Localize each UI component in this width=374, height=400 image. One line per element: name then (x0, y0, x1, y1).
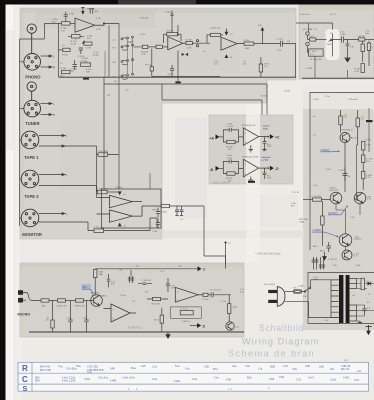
resistor R723 on monitor line (39, 218, 157, 232)
wire: stage2 vertical bus and ground (152, 25, 220, 76)
capacitor C901 shunt (66, 300, 73, 332)
svg-text:4.7K: 4.7K (355, 71, 360, 73)
svg-text:5/7008: 5/7008 (166, 31, 173, 33)
switch S1d contacts row4 (113, 73, 134, 83)
svg-text:C1a: C1a (152, 365, 157, 369)
svg-text:+C: +C (230, 34, 233, 36)
op-amp U705a (242, 125, 268, 145)
capacitor C730 parallel RC row1 (223, 124, 238, 137)
svg-text:51a: 51a (175, 364, 180, 368)
connector: TAPE 2 DIN socket (21, 170, 39, 188)
capacitor C714 (333, 32, 359, 43)
resistor R901 (41, 299, 58, 308)
svg-text:45 1M: 45 1M (261, 95, 267, 97)
wire: secondary taps (357, 279, 374, 322)
svg-text:641: 641 (82, 285, 87, 289)
resistor R709 output (186, 39, 210, 49)
svg-text:47K: 47K (86, 71, 90, 73)
wire: output run down to micro block (204, 206, 227, 264)
resistor R801 vertical (339, 110, 348, 133)
resistor R707b (156, 45, 168, 48)
label L705 blue row2 (261, 157, 270, 162)
IC module 5/306 outline (102, 187, 162, 228)
svg-text:B1a: B1a (131, 366, 136, 370)
svg-text:C7.1: C7.1 (366, 177, 371, 179)
svg-text:1.7M: 1.7M (69, 13, 74, 15)
wire: micro block top bus (95, 268, 197, 270)
wire: block B input feed (296, 23, 333, 32)
resistor R712 1K vertical (259, 57, 270, 77)
op-amp U901 (104, 304, 137, 322)
svg-text:MONITOR: MONITOR (22, 232, 42, 237)
svg-text:T/R: T/R (350, 46, 354, 48)
svg-text:C47: C47 (283, 364, 288, 368)
label cluster right block values (291, 96, 361, 267)
wire: micro input squiggle (26, 293, 41, 301)
svg-text:5.9M 1.5K: 5.9M 1.5K (75, 306, 86, 308)
resistor R711 (244, 40, 263, 50)
switch S1a contacts row1 (113, 36, 134, 42)
svg-text:4.B: 4.B (258, 25, 262, 27)
wire: phono input feed (44, 23, 61, 77)
svg-text:+C: +C (123, 194, 126, 196)
svg-text:A5.2: A5.2 (313, 245, 318, 248)
svg-text:5a 1.7: 5a 1.7 (330, 14, 337, 16)
svg-text:1.6V: 1.6V (267, 178, 272, 180)
node A input arrow (210, 134, 224, 140)
svg-text:2SC1312: 2SC1312 (329, 190, 339, 192)
svg-text:S: S (23, 384, 28, 393)
capacitor C850 reservoir (362, 305, 371, 316)
transistor Q803 (354, 192, 372, 204)
svg-text:C24: C24 (354, 378, 359, 382)
capacitor C715 mid (346, 40, 354, 59)
label blue annotation 3 (313, 228, 340, 237)
ground: power amp lower (323, 252, 327, 260)
svg-text:(/) 1.7MΩ 7.7s: (/) 1.7MΩ 7.7s (303, 29, 318, 31)
svg-text:24a: 24a (232, 364, 237, 368)
node B input arrow (210, 166, 224, 172)
svg-text:C 2a: C 2a (325, 96, 330, 98)
svg-text:21a: 21a (214, 375, 219, 379)
ground: power supply (358, 321, 362, 323)
svg-text:56A: 56A (99, 273, 103, 276)
resistor R702 (59, 48, 71, 56)
resistor R802 vertical (356, 110, 365, 145)
table row S marks (128, 386, 270, 391)
svg-text:C1B: C1B (269, 377, 274, 381)
label cluster block B right edge (300, 14, 370, 35)
svg-text:1 7a0: 1 7a0 (313, 99, 319, 101)
resistor R810 secondary (361, 278, 369, 290)
resistor R722 5.7K on tape2 line (39, 186, 119, 194)
svg-text:(AC87): (AC87) (328, 211, 338, 215)
capacitor C731 output row1 (263, 137, 272, 149)
capacitor C106 (138, 280, 152, 285)
resistor R727 (308, 35, 327, 41)
svg-text:14a5 141a: 14a5 141a (122, 375, 135, 379)
svg-text:B7a: B7a (213, 367, 218, 371)
resistor R903 (75, 299, 91, 308)
svg-text:C5a1: C5a1 (84, 377, 91, 381)
parts table grid (18, 362, 369, 391)
potentiometer P701 500K (327, 33, 334, 57)
resistor R905 collector load (94, 269, 105, 295)
svg-text:TUNER: TUNER (25, 121, 39, 126)
svg-text:C 56: C 56 (332, 265, 337, 267)
capacitor C710 to ground (175, 206, 179, 216)
svg-text:B54 C5B: B54 C5B (40, 368, 51, 372)
connector: MONITOR DIN socket (21, 209, 39, 227)
transistor Q805 (342, 250, 360, 260)
svg-text:C 106 1/6: C 106 1/6 (142, 280, 152, 282)
transformer secondary winding (350, 279, 357, 322)
svg-text:B2a: B2a (247, 375, 252, 379)
resistor R908 vertical out (228, 295, 238, 322)
ground: first stage feedback (82, 40, 86, 44)
capacitor C700a 47p (70, 60, 78, 73)
switch S1c contacts row3 (113, 59, 134, 65)
svg-text:C 214: C 214 (340, 34, 347, 36)
svg-text:54B: 54B (110, 367, 115, 371)
resistor R731 vertical (355, 64, 365, 73)
svg-text:1 L80: 1 L80 (227, 124, 233, 126)
wire: monitor lines into module (150, 173, 157, 229)
wire: tuner L out with arrow (41, 102, 56, 106)
svg-text:-D: -D (275, 167, 279, 171)
label cluster selector values (107, 34, 146, 97)
svg-text:L 700: L 700 (165, 12, 171, 14)
svg-text:1.70a 47a: 1.70a 47a (348, 99, 359, 101)
svg-text:p 2: p 2 (344, 358, 348, 362)
resistor R708a feedback (164, 31, 182, 43)
node D arrow micro (190, 323, 206, 328)
capacitor C732 parallel RC row2 (223, 155, 238, 168)
op-amp U703a (97, 195, 143, 207)
svg-text:1a 4a 7a1: 1a 4a 7a1 (300, 14, 311, 16)
svg-text:L705: L705 (261, 158, 268, 162)
svg-text:R 709: R 709 (186, 39, 193, 41)
transistor Q801 (340, 129, 359, 142)
svg-text:141: 141 (357, 369, 362, 373)
resistor R907 output (202, 293, 211, 301)
svg-text:R 124 5.6K: R 124 5.6K (311, 59, 322, 61)
svg-text:R10 10K: R10 10K (152, 304, 161, 306)
wire: mid vertical rail (356, 145, 357, 200)
op-amp U705b (242, 157, 268, 177)
svg-text:1 28a: 1 28a (355, 265, 361, 267)
svg-text:45.4K: 45.4K (93, 54, 99, 56)
wire: micro block bottom bus (29, 331, 244, 333)
svg-text:1.6V: 1.6V (267, 146, 272, 148)
svg-text:4x 95: 4x 95 (285, 91, 291, 93)
svg-text:A5.2: A5.2 (320, 249, 325, 252)
svg-text:C2a: C2a (245, 364, 250, 368)
svg-text:5B4: 5B4 (35, 379, 40, 383)
svg-text:2SC945 x2: 2SC945 x2 (342, 129, 354, 131)
label cluster micro values (118, 266, 245, 303)
svg-text:51B: 51B (204, 365, 209, 369)
wire: phono R out with arrow (41, 66, 56, 70)
label blue 641 annotation (82, 284, 95, 296)
svg-text:T/S: T/S (293, 288, 297, 290)
svg-text:21a5: 21a5 (330, 378, 336, 382)
wire: switch column links (105, 38, 133, 77)
wire: left ground bus (20, 23, 45, 226)
resistor R902 (57, 299, 76, 308)
svg-text:C2B: C2B (232, 306, 237, 308)
svg-text:1aB1: 1aB1 (174, 379, 181, 383)
wire: power amp verticals (336, 198, 360, 250)
svg-text:T4a: T4a (58, 365, 63, 369)
switch S1b contacts row2 (112, 44, 142, 50)
diode D704 with node C (225, 29, 234, 36)
svg-text:R: R (22, 364, 28, 373)
inductor L803 right edge bar (366, 108, 373, 152)
svg-text:B 7.0: B 7.0 (154, 319, 160, 321)
resistor R909 lower (154, 308, 164, 332)
resistor R701 47K (61, 68, 71, 74)
svg-text:1 70a3: 1 70a3 (81, 58, 88, 60)
label blue annotation 2 (328, 205, 348, 215)
svg-text:1.5K: 1.5K (366, 145, 371, 147)
node C output arrow row1 (267, 134, 280, 139)
svg-text:T.7 C71: T.7 C71 (292, 192, 300, 194)
svg-text:+C: +C (275, 135, 280, 139)
wire: R signal run y100 (162, 84, 262, 100)
capacitor C903 (107, 274, 116, 287)
svg-text:C7a: C7a (296, 378, 301, 382)
svg-text:C13a6: C13a6 (329, 188, 336, 190)
resistor R721 5.7K on tape1 line (97, 151, 120, 157)
svg-text:14B1: 14B1 (343, 375, 350, 379)
capacitor C820 pair upper (312, 257, 319, 270)
capacitor C706 top rail (139, 11, 174, 33)
svg-text:21B: 21B (279, 375, 284, 379)
svg-text:T/A 7.7: T/A 7.7 (152, 208, 160, 211)
svg-text:54a: 54a (76, 364, 81, 368)
table row R values (40, 364, 362, 374)
connector: PHONO RCA jack (27, 24, 36, 54)
svg-text:1 1: 1 1 (228, 387, 232, 391)
node C feed arrow micro (198, 266, 207, 271)
svg-text:1 2a1: 1 2a1 (227, 157, 233, 159)
svg-text:B1B: B1B (270, 365, 275, 369)
svg-text:B 700 (47.1): B 700 (47.1) (128, 326, 142, 330)
transistor Q902 (226, 322, 240, 330)
svg-text:4.7K0A: 4.7K0A (80, 60, 88, 63)
svg-text:1.7K: 1.7K (187, 47, 192, 49)
diode D705 below (225, 54, 233, 59)
connector: PHONO DIN socket (24, 54, 41, 71)
svg-text:144B: 144B (110, 379, 116, 383)
svg-text:L/A 7R7: L/A 7R7 (358, 35, 367, 38)
op-amp U702 (196, 37, 244, 50)
transformer primary winding (331, 280, 339, 318)
resistor R806 input (303, 196, 330, 201)
wire: block A right edge drop (295, 44, 297, 78)
svg-text:Wiring Diagram: Wiring Diagram (242, 337, 319, 347)
svg-text:L7a: L7a (366, 138, 371, 142)
diode D701 to supply (81, 8, 84, 15)
ground: C733 heavy bar (248, 181, 255, 183)
label 705 blue row1 (263, 126, 270, 131)
svg-text:5/7300 (4) 1/4: 5/7300 (4) 1/4 (242, 125, 256, 127)
trimmer box C2021 (308, 46, 324, 61)
svg-text:R: R (53, 113, 55, 117)
diode D801 rectifier (368, 282, 371, 286)
power supply box border (308, 273, 374, 324)
svg-text:M/36.5: M/36.5 (100, 296, 107, 298)
diode D707 node D (118, 223, 126, 228)
svg-text:* L500-2a3 (AM 22aa): * L500-2a3 (AM 22aa) (255, 252, 281, 256)
wire: tuner R out with arrow (41, 113, 56, 117)
transistor Q802 (329, 188, 342, 204)
svg-text:1 507: 1 507 (309, 36, 315, 38)
resistor R710a feedback stage3 (207, 28, 223, 44)
feedback network U902 (170, 307, 201, 323)
svg-text:5.2M 1.7K: 5.2M 1.7K (57, 306, 68, 308)
node D output arrow row2 (267, 166, 279, 171)
capacitor C902 shunt (82, 300, 89, 332)
op-amp U902 (175, 287, 203, 302)
capacitor C705 (168, 65, 175, 78)
capacitor C809 (320, 242, 331, 252)
svg-text:MICRO: MICRO (18, 312, 31, 316)
svg-text:1101 1.1 604 41: 1101 1.1 604 41 (213, 181, 231, 184)
svg-text:1M: 1M (228, 149, 231, 151)
svg-text:500K: 500K (327, 44, 333, 46)
svg-text:5.7K0 R/W: 5.7K0 R/W (98, 151, 110, 153)
svg-text:5/306 a: 5/306 a (116, 187, 124, 189)
node B terminal up arrow (258, 25, 264, 44)
capacitor C721 (152, 219, 160, 234)
resistor R807 bias vertical (299, 201, 324, 246)
svg-text:C4a: C4a (87, 370, 92, 374)
svg-text:50V: 50V (168, 76, 172, 78)
svg-text:12 1a: 12 1a (140, 34, 146, 36)
resistor R704 (61, 22, 76, 33)
op-amp U703b (97, 206, 145, 222)
wire: phono L out with arrow (41, 55, 56, 59)
capacitor C720 tape out (152, 208, 160, 218)
svg-text:C 2021: C 2021 (310, 51, 318, 53)
capacitor C821 pair upper (319, 257, 348, 270)
op-amp U701b (168, 37, 194, 50)
wire: tape1 rec line (39, 145, 97, 147)
svg-text:1 7.0a: 1 7.0a (202, 299, 209, 301)
svg-text:11a: 11a (258, 367, 263, 371)
svg-text:C7.2: C7.2 (367, 199, 372, 201)
wire: stage1 bottom bus (59, 76, 296, 78)
svg-text:0.5A: 0.5A (299, 284, 304, 287)
svg-text:1 7.a0: 1 7.a0 (220, 301, 227, 303)
switch S801 mains (301, 280, 339, 298)
svg-text:L84(R): L84(R) (321, 148, 330, 152)
svg-text:C 1a5: C 1a5 (120, 295, 127, 297)
svg-text:L 7.0: L 7.0 (342, 259, 348, 261)
ground: micro block (166, 332, 170, 338)
wire: mains lower leg (285, 301, 339, 317)
svg-text:C 56 1.0: C 56 1.0 (329, 259, 338, 261)
wire: block B bottom bus (302, 77, 374, 79)
svg-text:L2(B7): L2(B7) (313, 228, 322, 232)
svg-text:24B: 24B (305, 364, 310, 368)
resistor R906 (147, 297, 168, 305)
svg-text:5/7300 (4) 1/4 W: 5/7300 (4) 1/4 W (242, 157, 259, 159)
connector: TAPE 1 DIN socket (21, 131, 39, 149)
resistor R729 vertical (361, 41, 370, 62)
terminal strip below right block (366, 325, 372, 334)
AC mains plug (264, 284, 285, 306)
resistor R703a (145, 64, 153, 71)
diode D706 node C (118, 191, 126, 196)
svg-text:C 7.9 471: C 7.9 471 (312, 196, 322, 198)
svg-text:C5a: C5a (292, 367, 297, 371)
power amp box border (310, 93, 374, 251)
svg-text:C 7.00 4.7u: C 7.00 4.7u (210, 290, 222, 292)
capacitor C733 output row2 (263, 168, 272, 180)
svg-text:14a2 C12B: 14a2 C12B (62, 379, 76, 383)
svg-text:4.7K: 4.7K (96, 29, 101, 31)
svg-text:C 200: C 200 (277, 38, 284, 40)
connector: aux input contacts (303, 29, 318, 46)
svg-text:L 700B: L 700B (306, 68, 313, 70)
wire: selector bus vertical (109, 23, 119, 189)
svg-text:1 L8a 1/4: 1 L8a 1/4 (139, 18, 149, 20)
transistor Q901 (91, 293, 108, 307)
connector: MICRO jack (18, 290, 26, 302)
resistor R728 (358, 35, 374, 41)
svg-text:C 18a: C 18a (66, 317, 73, 319)
resistor R804 vertical right (362, 150, 374, 171)
node: stage1 output junction (103, 23, 119, 26)
capacitor C905 (166, 278, 176, 292)
ground: stage1 bus (83, 78, 89, 80)
svg-text:5.7K0: 5.7K0 (244, 40, 250, 42)
svg-text:1a1 120(?): 1a1 120(?) (264, 284, 275, 286)
wire: selector feeds into module (97, 146, 120, 197)
svg-text:+A: +A (210, 137, 215, 141)
capacitor C702 bypass (89, 9, 99, 14)
svg-text:PHONO: PHONO (25, 75, 41, 80)
resistor R904 shunt (46, 300, 55, 332)
table row C values (35, 375, 359, 383)
label blue DRIVE annotation 1 (321, 148, 340, 152)
svg-text:2a5: 2a5 (141, 364, 146, 368)
capacitor C708 output (262, 38, 296, 46)
label cluster stage3 values (203, 50, 282, 65)
transistor Q804 (339, 234, 362, 247)
svg-text:R: R (53, 66, 55, 70)
svg-text:2aB: 2aB (319, 365, 324, 369)
svg-text:Schaltbild: Schaltbild (259, 323, 304, 333)
capacitor C701 (64, 12, 74, 22)
connector: TUNER DIN socket (24, 100, 41, 117)
resistor R734 1M row1 (223, 137, 243, 151)
svg-text:M/C3.3: M/C3.3 (355, 239, 363, 241)
svg-text:5/B: 5/B (303, 296, 307, 298)
svg-text:L 700a 1/4: L 700a 1/4 (210, 28, 221, 30)
svg-text:TAPE 2: TAPE 2 (24, 194, 39, 199)
svg-text:3.3K/1.0: 3.3K/1.0 (182, 321, 191, 323)
ground: block B mid (345, 58, 351, 62)
svg-text:C 207: C 207 (338, 170, 345, 172)
svg-text:14B: 14B (226, 378, 231, 382)
ground: U705b (249, 177, 253, 182)
svg-text:C 1.00: C 1.00 (227, 126, 234, 128)
svg-text:C1a 51a: C1a 51a (98, 375, 109, 379)
